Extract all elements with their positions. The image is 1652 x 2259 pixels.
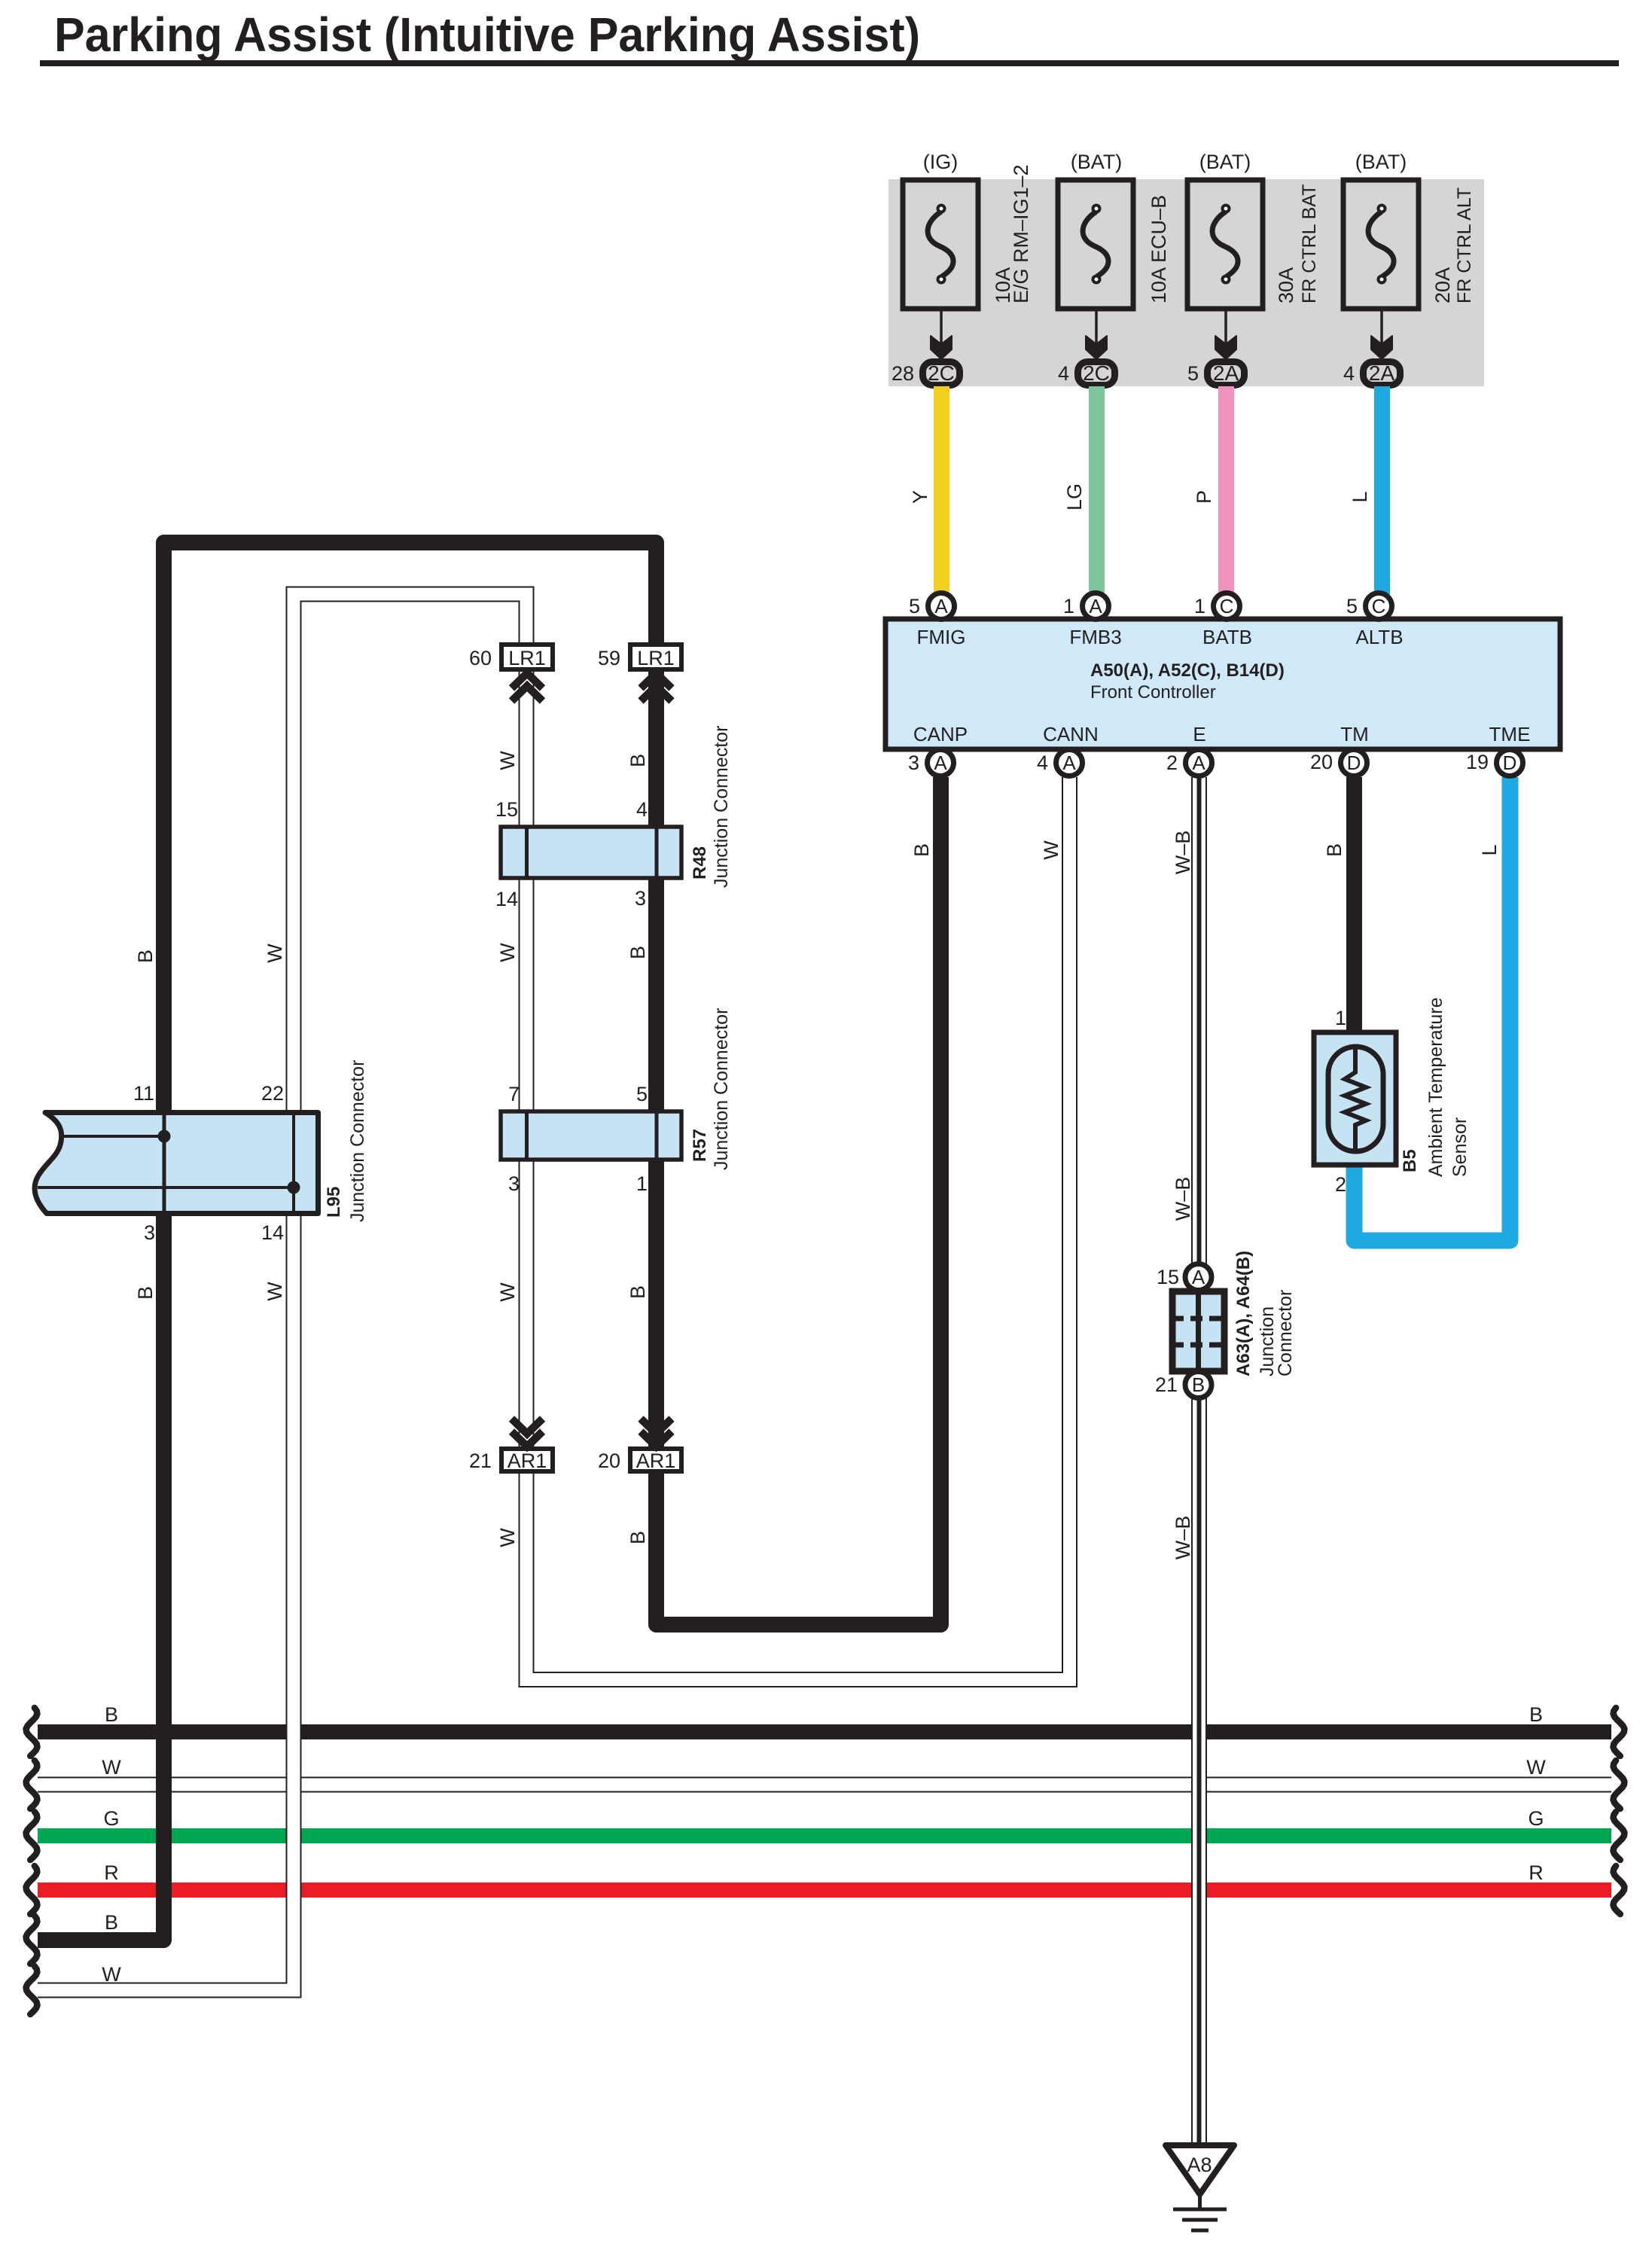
svg-text:R: R: [1529, 1861, 1544, 1884]
pin circle 1 A FMB3: [1083, 593, 1109, 620]
svg-text:L: L: [1478, 844, 1501, 855]
squiggle right R bus: [1614, 1866, 1625, 1914]
A63 label: [1233, 1251, 1296, 1376]
svg-text:ALTB: ALTB: [1355, 626, 1403, 648]
wire P pink fuse F3 to BATB: [1193, 386, 1234, 608]
svg-text:B: B: [910, 843, 933, 857]
wire B black TM to B5 pin 1: [1323, 777, 1362, 1035]
svg-text:20A: 20A: [1431, 267, 1454, 303]
svg-text:21: 21: [1155, 1373, 1178, 1396]
R48 label: [690, 726, 732, 888]
svg-text:B: B: [1529, 1703, 1543, 1726]
svg-text:A: A: [1062, 751, 1076, 774]
R57 label: [690, 1008, 732, 1170]
fuse F1 10A E/G RM-IG1-2 (IG): [903, 151, 978, 359]
svg-text:4: 4: [1058, 362, 1069, 385]
bus wire W white: [38, 1777, 1611, 1793]
svg-text:R: R: [104, 1861, 119, 1884]
svg-text:3: 3: [144, 1221, 155, 1244]
svg-text:19: 19: [1466, 751, 1489, 773]
svg-text:(BAT): (BAT): [1071, 151, 1123, 173]
connector oval 2A pin 4: [1343, 361, 1401, 386]
svg-text:FMB3: FMB3: [1069, 626, 1121, 648]
svg-text:1: 1: [1194, 595, 1205, 617]
connector oval 2A pin 5: [1187, 361, 1245, 386]
svg-text:Sensor: Sensor: [1449, 1117, 1471, 1177]
svg-text:G: G: [1528, 1807, 1544, 1830]
svg-text:B: B: [134, 950, 157, 963]
squiggle right G bus: [1614, 1812, 1625, 1860]
svg-text:L95: L95: [324, 1187, 344, 1218]
svg-text:Junction Connector: Junction Connector: [711, 1008, 732, 1170]
squiggle left G bus: [26, 1812, 38, 1860]
svg-text:21: 21: [469, 1450, 492, 1472]
svg-text:LR1: LR1: [637, 647, 675, 669]
svg-text:15: 15: [1157, 1266, 1179, 1288]
wire B black main: bottom stub via L95 R48 R57 AR1 to CANP: [38, 543, 941, 1940]
svg-text:W: W: [264, 944, 286, 963]
svg-text:30A: 30A: [1275, 267, 1297, 303]
svg-text:AR1: AR1: [636, 1450, 676, 1472]
svg-text:B5: B5: [1400, 1149, 1420, 1172]
svg-text:14: 14: [495, 888, 518, 910]
junction connector A63(A) A64(B): [1172, 1291, 1225, 1371]
svg-text:5: 5: [1187, 362, 1199, 385]
wire L blue B5 pin 2 to TME: [1355, 777, 1510, 1241]
svg-text:C: C: [1220, 595, 1234, 617]
wire Y yellow fuse F1 to FMIG: [909, 386, 949, 608]
svg-text:5: 5: [1346, 595, 1358, 617]
fuse F2 value label 10A ECU-B: [1148, 195, 1170, 303]
svg-text:Connector: Connector: [1275, 1290, 1296, 1376]
svg-text:28: 28: [892, 362, 914, 385]
svg-text:W: W: [264, 1282, 286, 1301]
svg-text:(BAT): (BAT): [1199, 151, 1251, 173]
svg-text:W: W: [496, 1528, 519, 1547]
svg-text:W: W: [496, 1282, 519, 1302]
svg-text:A: A: [1192, 751, 1205, 774]
bus wire B black: [38, 1724, 1611, 1739]
wire L blue fuse F4 to ALTB: [1349, 386, 1390, 608]
connector oval 2C pin 4: [1058, 361, 1115, 386]
svg-text:A: A: [1192, 1266, 1205, 1288]
svg-text:B: B: [626, 754, 649, 767]
connector LR1 pin 59: [598, 645, 681, 669]
squiggle right W bus: [1614, 1761, 1625, 1809]
svg-text:3: 3: [508, 1172, 520, 1195]
svg-text:Parking Assist (Intuitive Park: Parking Assist (Intuitive Parking Assist…: [54, 8, 920, 62]
svg-text:A: A: [1089, 595, 1102, 617]
chevron arrow into AR1 20: [641, 1419, 672, 1447]
svg-text:A: A: [934, 595, 948, 617]
svg-text:TM: TM: [1340, 723, 1369, 745]
pin circle 3 A CANP: [928, 750, 954, 776]
svg-text:W: W: [496, 751, 519, 770]
fuse F3 value label 30A FR CTRL BAT: [1275, 184, 1320, 303]
svg-text:B: B: [105, 1703, 118, 1726]
svg-text:W: W: [1526, 1756, 1546, 1779]
svg-text:14: 14: [261, 1221, 284, 1244]
pin circle 1 C BATB: [1214, 593, 1240, 620]
svg-text:3: 3: [635, 887, 646, 910]
svg-text:BATB: BATB: [1202, 626, 1252, 648]
svg-text:AR1: AR1: [507, 1450, 547, 1472]
svg-text:C: C: [1372, 595, 1386, 617]
chevron arrow into LR1 60: [512, 673, 543, 701]
wire LG light green fuse F2 to FMB3: [1063, 386, 1105, 608]
svg-text:Front Controller: Front Controller: [1090, 682, 1216, 703]
svg-text:Junction Connector: Junction Connector: [711, 726, 732, 888]
squiggle left W stub: [26, 1966, 38, 2014]
connector AR1 pin 20: [598, 1449, 681, 1472]
svg-text:A: A: [934, 751, 947, 774]
svg-text:B: B: [1192, 1373, 1205, 1396]
svg-text:22: 22: [261, 1082, 284, 1105]
svg-text:Ambient Temperature: Ambient Temperature: [1425, 997, 1446, 1177]
svg-text:B: B: [134, 1286, 157, 1300]
B5 label: [1400, 997, 1471, 1177]
svg-text:3: 3: [908, 751, 919, 774]
svg-text:60: 60: [469, 647, 492, 669]
svg-text:D: D: [1347, 751, 1361, 774]
junction connector R57: [501, 1110, 681, 1161]
svg-text:20: 20: [1310, 751, 1333, 773]
svg-text:LG: LG: [1063, 483, 1086, 511]
ground A8: [1166, 2145, 1234, 2230]
squiggle left B bus: [26, 1708, 38, 1756]
connector AR1 pin 21: [469, 1449, 553, 1472]
svg-text:L: L: [1349, 491, 1371, 502]
svg-text:20: 20: [598, 1450, 620, 1472]
fuse block gray area: [888, 179, 1484, 386]
svg-text:10A ECU–B: 10A ECU–B: [1148, 195, 1170, 303]
svg-text:4: 4: [1343, 362, 1355, 385]
svg-text:P: P: [1193, 490, 1215, 504]
svg-text:A8: A8: [1187, 2154, 1212, 2176]
svg-text:2A: 2A: [1369, 361, 1395, 385]
L95 label: [324, 1060, 368, 1222]
svg-text:FMIG: FMIG: [917, 626, 966, 648]
svg-text:(IG): (IG): [923, 151, 959, 173]
svg-text:CANP: CANP: [913, 723, 968, 745]
svg-text:4: 4: [636, 798, 648, 821]
svg-text:5: 5: [636, 1083, 648, 1105]
svg-text:W: W: [496, 943, 519, 962]
pin circle 5 C ALTB: [1366, 593, 1392, 620]
title Parking Assist: [40, 8, 1619, 66]
svg-text:2C: 2C: [1083, 361, 1110, 385]
svg-text:1: 1: [636, 1172, 648, 1195]
pin circle 5 A FMIG: [928, 593, 955, 620]
pin circle 20 D TM: [1341, 750, 1367, 776]
ambient temperature sensor B5: [1314, 1032, 1396, 1165]
fuse F2 10A ECU-B (BAT): [1058, 151, 1133, 359]
svg-text:TME: TME: [1489, 723, 1531, 745]
svg-text:11: 11: [133, 1082, 154, 1105]
A63 pin 21 B: [1155, 1372, 1212, 1398]
svg-text:2: 2: [1166, 751, 1178, 774]
svg-text:W–B: W–B: [1172, 1177, 1194, 1221]
svg-text:2C: 2C: [928, 361, 955, 385]
junction connector L95: [35, 1112, 318, 1214]
svg-text:7: 7: [508, 1083, 520, 1105]
svg-text:2A: 2A: [1213, 361, 1239, 385]
connector LR1 pin 60: [469, 645, 553, 669]
front controller U A50(A) A52(C) B14(D): [885, 619, 1560, 749]
fuse F4 value label 20A FR CTRL ALT: [1431, 187, 1475, 303]
junction connector R48: [501, 825, 681, 880]
chevron arrow into AR1 21: [512, 1419, 543, 1447]
svg-text:R48: R48: [690, 846, 710, 880]
svg-text:15: 15: [495, 798, 518, 821]
svg-text:B: B: [626, 946, 649, 959]
svg-text:5: 5: [909, 595, 920, 617]
squiggle left R bus: [26, 1866, 38, 1914]
A63 pin 15 A: [1157, 1264, 1212, 1291]
svg-text:E/G RM–IG1–2: E/G RM–IG1–2: [1010, 164, 1032, 303]
chevron arrow into LR1 59: [641, 673, 672, 701]
svg-text:2: 2: [1335, 1173, 1346, 1196]
svg-text:4: 4: [1037, 751, 1048, 774]
svg-text:1: 1: [1335, 1007, 1346, 1029]
bus wire R red: [38, 1882, 1611, 1898]
svg-text:D: D: [1503, 751, 1517, 774]
svg-text:Junction Connector: Junction Connector: [347, 1060, 368, 1222]
fuse F4 20A FR CTRL ALT (BAT): [1343, 151, 1419, 359]
svg-text:B: B: [626, 1531, 649, 1544]
svg-text:FR CTRL BAT: FR CTRL BAT: [1299, 184, 1320, 303]
svg-text:(BAT): (BAT): [1355, 151, 1407, 173]
svg-text:G: G: [103, 1807, 119, 1830]
svg-text:B: B: [105, 1911, 118, 1934]
svg-text:A63(A), A64(B): A63(A), A64(B): [1233, 1251, 1254, 1376]
squiggle right B bus: [1614, 1708, 1625, 1756]
svg-text:W–B: W–B: [1172, 831, 1194, 875]
squiggle left B stub: [26, 1916, 38, 1964]
connector oval 2C pin 28: [892, 361, 960, 386]
svg-text:Y: Y: [909, 490, 931, 504]
svg-text:W–B: W–B: [1172, 1516, 1194, 1560]
wire W white main: bottom stub via L95 R48 R57 AR1 to CANN: [38, 594, 1070, 1990]
svg-text:LR1: LR1: [508, 647, 546, 669]
squiggle left W bus: [26, 1761, 38, 1809]
pin circle 4 A CANN: [1056, 750, 1083, 776]
svg-text:1: 1: [1063, 595, 1074, 617]
fuse F1 value label 10A E/G RM-IG1-2: [992, 164, 1032, 303]
svg-text:R57: R57: [690, 1129, 710, 1162]
svg-text:W: W: [102, 1756, 121, 1779]
bus wire G green: [38, 1828, 1611, 1843]
wire W-B E to ground A8: [1191, 777, 1207, 2142]
pin circle 19 D TME: [1497, 750, 1523, 776]
svg-text:W: W: [102, 1963, 121, 1986]
svg-text:B: B: [1323, 843, 1346, 857]
svg-text:FR CTRL ALT: FR CTRL ALT: [1454, 187, 1475, 303]
svg-text:59: 59: [598, 647, 620, 669]
svg-text:CANN: CANN: [1043, 723, 1099, 745]
svg-text:B: B: [626, 1285, 649, 1299]
svg-text:W: W: [1040, 840, 1062, 860]
pin circle 2 A E: [1186, 750, 1212, 776]
fuse F3 30A FR CTRL BAT (BAT): [1187, 151, 1263, 359]
svg-text:A50(A), A52(C), B14(D): A50(A), A52(C), B14(D): [1090, 660, 1285, 681]
svg-text:E: E: [1193, 723, 1205, 745]
